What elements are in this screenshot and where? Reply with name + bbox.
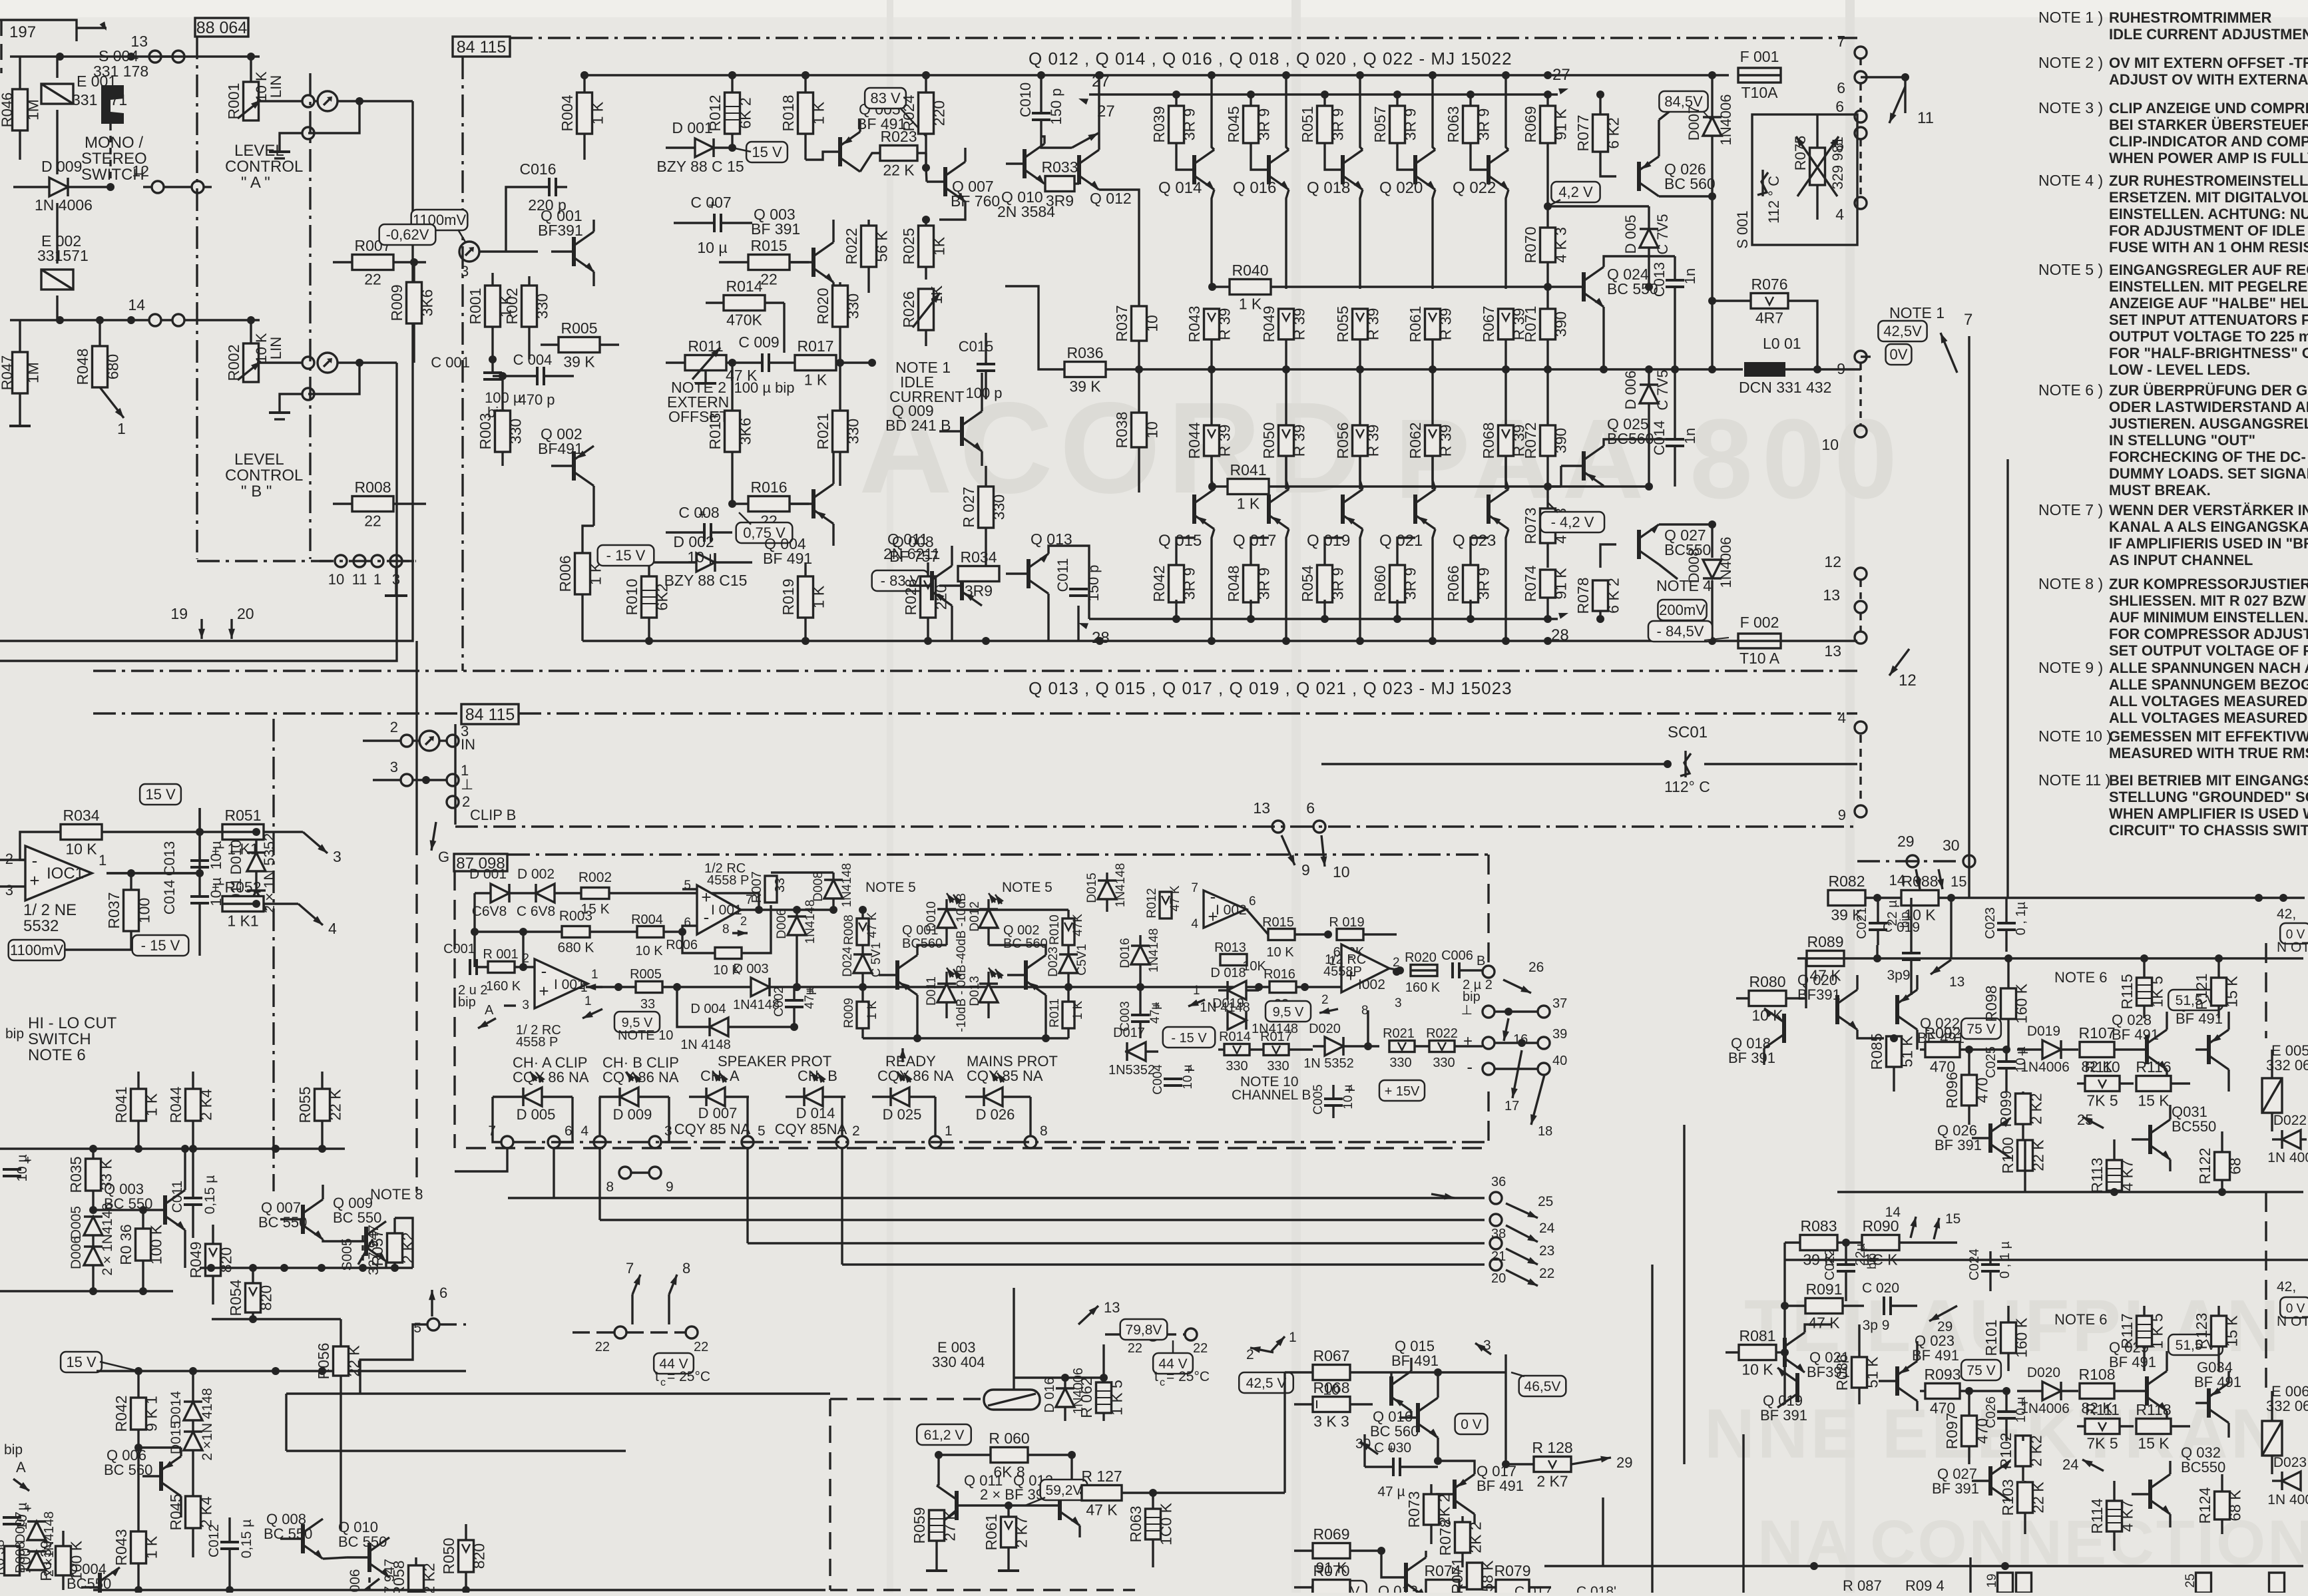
resistor R072 390: [1540, 425, 1556, 456]
svg-text:6 K2: 6 K2: [1605, 117, 1622, 148]
svg-text:Q 012 , Q 014 , Q 016 , Q 018: Q 012 , Q 014 , Q 016 , Q 018 , Q 020 , …: [1029, 49, 1512, 69]
resistor R091 47K: [1805, 1298, 1843, 1314]
svg-text:BC550: BC550: [2172, 1118, 2216, 1135]
svg-text:56 K: 56 K: [873, 230, 891, 262]
zener D006 1N4148: [788, 916, 806, 935]
diode D002 BZY88C15: [696, 553, 715, 572]
resistor R044b 2K4: [186, 1089, 201, 1121]
arrow 9: [1281, 835, 1295, 865]
svg-text:R075: R075: [1792, 136, 1809, 171]
svg-text:A: A: [485, 1003, 494, 1018]
svg-text:BF391: BF391: [1797, 986, 1841, 1003]
resistor R011 1K: [1062, 1002, 1074, 1028]
svg-text:BF491: BF491: [538, 440, 583, 457]
svg-text:D014: D014: [168, 1391, 184, 1425]
svg-text:C006: C006: [1441, 948, 1473, 963]
transistor Q004b BC550: [98, 1573, 102, 1596]
opto LED D013: [979, 984, 998, 1002]
resistor R128 2K7: [1534, 1457, 1571, 1472]
output cell Q 017 base resistor R048 3R9: [1244, 565, 1259, 602]
arrow 3: [1475, 1343, 1491, 1354]
resistor R010 47K: [1062, 918, 1074, 945]
svg-text:R048: R048: [1225, 566, 1242, 602]
svg-text:D005: D005: [69, 1206, 84, 1239]
bottom-right bus rail: [1857, 897, 2305, 898]
resistor R114 4K7: [2107, 1501, 2122, 1531]
bottom partial resistors: [1998, 1573, 2013, 1593]
feedback line R040: [1212, 286, 1561, 288]
svg-text:25: 25: [1538, 1194, 1553, 1209]
svg-text:6: 6: [684, 916, 691, 930]
bottom wire stubs: [1544, 1565, 2303, 1567]
power transistor Q 014 MJ15022: [1192, 155, 1196, 184]
vertical dash-dot border x411: [272, 719, 274, 1191]
resistor R055b 22K: [315, 1089, 330, 1121]
svg-text:4: 4: [1191, 917, 1198, 931]
callout 59,2V: [1040, 1480, 1088, 1500]
svg-text:D 016: D 016: [1042, 1377, 1057, 1412]
svg-text:CQY 86 NA: CQY 86 NA: [513, 1069, 589, 1086]
svg-text:R116: R116: [2136, 1058, 2171, 1076]
svg-text:9: 9: [1838, 807, 1846, 823]
resistor R098 160K: [2001, 988, 2016, 1019]
resistor R018 1K: [798, 93, 813, 134]
svg-text:3K6: 3K6: [737, 418, 754, 445]
svg-text:C 007: C 007: [690, 194, 731, 211]
resistor R009 1K: [857, 1002, 869, 1028]
terminal 6 LED row: [548, 1136, 560, 1148]
dashed edge right of power box: [1859, 59, 1861, 72]
svg-text:BF 391: BF 391: [751, 220, 800, 238]
svg-text:D016: D016: [1118, 938, 1132, 968]
rail top of Q003 section: [0, 1147, 345, 1149]
input terminal 3: [459, 242, 479, 262]
bias ladder node 4,2V: [1551, 182, 1600, 202]
svg-text:19: 19: [170, 605, 188, 622]
svg-text:D 005: D 005: [1622, 215, 1639, 254]
svg-text:R061: R061: [1407, 306, 1424, 343]
svg-text:1n: 1n: [1682, 428, 1698, 444]
svg-text:c: c: [660, 1377, 666, 1388]
capacitor C013 1n: [1666, 279, 1684, 282]
power transistor Q 017 MJ15023: [1267, 495, 1271, 524]
emitter resistor R044 R39: [1204, 425, 1220, 456]
arrow G down: [431, 822, 436, 851]
svg-text:CH· B: CH· B: [798, 1068, 837, 1084]
terminal 2 LED row: [836, 1136, 848, 1148]
power transistor Q 019 MJ15023: [1341, 495, 1345, 524]
svg-text:28: 28: [1092, 629, 1110, 647]
output cell Q 015 base resistor R042 3R9: [1169, 565, 1184, 602]
callout 0V: [1455, 1414, 1488, 1434]
svg-text:- 15 V: - 15 V: [606, 547, 646, 564]
svg-text:330: 330: [507, 419, 525, 444]
terminal 9 right edge mid: [1855, 805, 1867, 817]
svg-text:0 , 1µ: 0 , 1µ: [2014, 901, 2028, 935]
svg-text:SC01: SC01: [1668, 723, 1708, 741]
CLIP B terminal: [447, 796, 459, 808]
terminal 6: [1855, 71, 1867, 83]
svg-text:R009: R009: [388, 285, 405, 321]
svg-text:112 ° C: 112 ° C: [1765, 176, 1782, 224]
capacitor C022 22u bip: [1837, 1263, 1855, 1266]
svg-text:D019: D019: [2027, 1024, 2060, 1039]
capacitor C009 100u bip: [761, 353, 764, 372]
svg-text:91 K: 91 K: [1552, 108, 1570, 140]
resistor R011 47K trimmer: [685, 355, 726, 371]
svg-text:1 K: 1 K: [865, 1000, 879, 1020]
resistor R117 1K5: [2137, 1316, 2152, 1346]
resistor R107 82K: [2080, 1042, 2114, 1058]
diode D016b 1N4006: [1056, 1388, 1074, 1407]
svg-text:3R 9: 3R 9: [1256, 568, 1273, 600]
svg-text:C 030: C 030: [1374, 1440, 1411, 1456]
svg-text:CHANNEL B: CHANNEL B: [1232, 1088, 1311, 1103]
capacitor C004 10u: [1164, 1078, 1182, 1080]
resistor R074 91K: [1540, 570, 1556, 598]
transistor Q002 BC560 (protection): [1024, 960, 1028, 990]
svg-text:3R 9: 3R 9: [1402, 568, 1419, 600]
svg-text:C 7V5: C 7V5: [1654, 369, 1671, 410]
svg-text:7K 5: 7K 5: [2086, 1435, 2118, 1452]
wire collector bus Q012: [1095, 71, 1103, 79]
svg-text:-10dB - 0dB: -10dB - 0dB: [955, 964, 969, 1032]
diodes D014b D015b 2x1N4148: [184, 1402, 202, 1420]
box 84 115 (power amp) label: [453, 37, 510, 57]
svg-text:1N4006: 1N4006: [1718, 94, 1734, 145]
svg-text:R09 4: R09 4: [1905, 1577, 1945, 1593]
svg-text:D 007: D 007: [698, 1105, 738, 1121]
svg-text:R072: R072: [1522, 423, 1539, 459]
svg-text:BC 550: BC 550: [264, 1525, 312, 1542]
svg-text:CQY 85 NA: CQY 85 NA: [967, 1068, 1043, 1084]
svg-text:D020: D020: [2027, 1365, 2060, 1380]
box 84 115 left border: [461, 57, 463, 671]
svg-text:C011: C011: [1054, 558, 1071, 592]
svg-text:2 K4: 2 K4: [198, 1496, 215, 1528]
svg-text:C016: C016: [520, 160, 557, 178]
svg-text:22: 22: [595, 1340, 610, 1354]
svg-text:R058: R058: [390, 1561, 407, 1593]
base drive rail 28 (lower): [1089, 618, 1558, 620]
svg-text:42,: 42,: [2277, 1279, 2296, 1295]
IN connector jack: [401, 735, 413, 747]
svg-text:10: 10: [1821, 436, 1839, 453]
svg-text:30: 30: [1943, 837, 1960, 854]
callout 19,5V: [1312, 1581, 1367, 1596]
svg-text:R038: R038: [1113, 412, 1130, 449]
emitter resistor R061 R39: [1425, 309, 1441, 339]
callout 42,5V: [1239, 1372, 1293, 1393]
svg-text:R 128: R 128: [1532, 1439, 1572, 1456]
emitter resistor R068 R39: [1499, 425, 1514, 456]
resistor R002 330: [522, 286, 537, 327]
relay top wires: [1014, 1376, 1104, 1378]
svg-text:N OT: N OT: [2277, 940, 2308, 955]
svg-text:BF 391: BF 391: [1760, 1407, 1807, 1424]
svg-text:R093: R093: [1925, 1366, 1961, 1383]
svg-text:R004: R004: [559, 95, 576, 131]
callout -15V protection: [1163, 1027, 1215, 1048]
resistor R035 33K: [86, 1159, 101, 1191]
resistor R046 1M (left edge): [13, 89, 28, 130]
wires out of level box: [359, 100, 413, 102]
svg-text:DCN 331 432: DCN 331 432: [1739, 379, 1831, 396]
capacitor C006b left edge: [3, 1516, 21, 1519]
svg-text:2 × 1N4148: 2 × 1N4148: [100, 1203, 115, 1275]
svg-text:R 060: R 060: [989, 1430, 1029, 1447]
svg-text:330: 330: [534, 294, 551, 319]
svg-text:R041: R041: [113, 1087, 130, 1123]
svg-text:22: 22: [1539, 1266, 1554, 1281]
arrow 13 block1: [1931, 960, 1951, 974]
transistor Q027 BC550: [1637, 530, 1641, 559]
resistor R096 470: [1962, 1075, 1977, 1105]
block2 right border dash: [2265, 943, 2267, 1038]
svg-text:27: 27: [1552, 66, 1570, 84]
resistor R115 1K5 edge: [2137, 978, 2152, 1006]
svg-text:1: 1: [117, 420, 126, 437]
svg-text:R019: R019: [780, 579, 797, 616]
svg-text:3R9: 3R9: [965, 582, 993, 600]
wire note1 terminals: [1861, 355, 1871, 357]
svg-text:D 018: D 018: [1210, 966, 1246, 980]
svg-text:R086: R086: [1833, 1354, 1851, 1391]
terminal 5: [1855, 127, 1867, 139]
svg-text:D 001: D 001: [672, 119, 712, 136]
svg-text:75 V: 75 V: [1966, 1363, 1995, 1378]
resistor R016 22: [748, 497, 790, 512]
svg-text:MUST BREAK.: MUST BREAK.: [2109, 482, 2211, 499]
capacitor C008 10u: [703, 523, 706, 542]
resistor R013 3K6: [725, 411, 740, 452]
resistor R070 4K3: [1540, 228, 1556, 262]
svg-text:R107: R107: [2079, 1024, 2116, 1042]
bus lines to terminals 36 38 21 20: [508, 1197, 1485, 1199]
svg-text:R118: R118: [2136, 1401, 2171, 1418]
svg-text:22: 22: [760, 271, 778, 288]
svg-text:C004: C004: [1151, 1064, 1165, 1095]
resistor R122 68: [2215, 1152, 2230, 1180]
svg-text:3R 9: 3R 9: [1181, 108, 1198, 141]
svg-text:22: 22: [364, 271, 381, 288]
svg-text:NOTE 2 ): NOTE 2 ): [2038, 54, 2103, 71]
resistor R037 10: [1132, 306, 1147, 341]
svg-text:1N4148: 1N4148: [1147, 928, 1161, 973]
svg-text:R070: R070: [1522, 227, 1539, 264]
svg-text:28: 28: [1551, 626, 1569, 644]
svg-text:1 K: 1 K: [810, 585, 827, 608]
diode D020b 1N4006: [2042, 1382, 2061, 1400]
terminal 10: [1855, 425, 1867, 437]
LED D007 indicator: [706, 1088, 725, 1106]
svg-text:I 002: I 002: [1216, 902, 1247, 918]
svg-text:AS INPUT CHANNEL: AS INPUT CHANNEL: [2109, 552, 2253, 568]
wire SC01 to terminal 9: [1856, 763, 1858, 765]
svg-text:SHLIESSEN. MIT R 027 BZW R 028: SHLIESSEN. MIT R 027 BZW R 028 ENDST: [2109, 592, 2308, 609]
svg-text:NOTE 6 ): NOTE 6 ): [2038, 381, 2103, 399]
svg-text:42,: 42,: [2277, 906, 2296, 922]
terminal 5 compressor: [427, 1318, 439, 1330]
svg-text:- 84,5V: - 84,5V: [1657, 623, 1704, 640]
svg-text:3: 3: [522, 998, 529, 1012]
resistor R088 10K: [1901, 891, 1939, 906]
svg-text:ERSETZEN. MIT DIGITALVOLTMETER: ERSETZEN. MIT DIGITALVOLTMETER 200 mV: [2109, 189, 2308, 206]
resistor R116 15K: [2136, 1076, 2171, 1092]
svg-text:R123: R123: [2193, 1313, 2210, 1350]
svg-text:R122: R122: [2196, 1148, 2213, 1185]
svg-text:BF 491: BF 491: [1477, 1478, 1524, 1494]
svg-text:ZUR RUHESTROMEINSTELLUNG SICHE: ZUR RUHESTROMEINSTELLUNG SICHERUNG: [2109, 172, 2308, 189]
svg-text:3R9: 3R9: [1046, 192, 1074, 210]
svg-text:OUTPUT VOLTAGE TO 225 mV AT 1: OUTPUT VOLTAGE TO 225 mV AT 1 kHz.: [2109, 328, 2308, 345]
svg-text:D020: D020: [1309, 1022, 1341, 1036]
svg-text:1N4148: 1N4148: [840, 863, 854, 908]
svg-text:10: 10: [1144, 421, 1161, 439]
svg-text:1n: 1n: [1682, 268, 1698, 284]
ground at connector: [395, 567, 397, 596]
resistor R004 1K: [577, 93, 592, 134]
svg-text:15 V: 15 V: [66, 1354, 97, 1370]
resistor R041 1K: [1228, 479, 1269, 495]
capacitor C014 10u: [190, 895, 209, 898]
zener diode D005 C7V5: [1640, 229, 1658, 248]
svg-text:NOTE 7 ): NOTE 7 ): [2038, 501, 2103, 518]
block1 left vertical: [1805, 958, 1807, 1008]
resistor R016 33: [1269, 982, 1296, 993]
svg-text:R117: R117: [2118, 1313, 2136, 1348]
svg-text:4 K 3: 4 K 3: [1552, 227, 1570, 263]
resistor R008 22: [352, 497, 393, 512]
svg-text:IF AMPLIFIERIS USED IN "BRIDGE: IF AMPLIFIERIS USED IN "BRIDGED MODE",": [2109, 535, 2308, 552]
svg-text:NOTE 4: NOTE 4: [1656, 577, 1712, 594]
capacitor C025 10u: [1997, 1060, 2016, 1063]
switch S006 327947: [368, 1577, 370, 1590]
arrow 6 up: [431, 1290, 433, 1316]
svg-text:4: 4: [328, 920, 337, 937]
svg-text:S005: S005: [340, 1238, 355, 1271]
svg-text:2N 6211: 2N 6211: [883, 545, 940, 562]
svg-text:1N 4006: 1N 4006: [2267, 1492, 2308, 1507]
svg-text:R015: R015: [751, 237, 788, 254]
resistor R003 330: [495, 411, 511, 452]
svg-text:470: 470: [1974, 1078, 1991, 1103]
svg-text:680: 680: [105, 354, 122, 379]
resistor R067 10: [1313, 1365, 1350, 1380]
callout 79,8V: [1120, 1319, 1168, 1340]
callout 83V: [865, 88, 906, 108]
svg-text:ZUR ÜBERPRÜFUNG DER GLEICHSPAN: ZUR ÜBERPRÜFUNG DER GLEICHSPANNUNG: [2109, 382, 2308, 399]
svg-text:C 004: C 004: [513, 351, 553, 368]
resistor R004 10K: [637, 926, 664, 938]
transistor Q025 BC560: [1582, 451, 1586, 481]
svg-text:13: 13: [1253, 799, 1270, 817]
LED D026 indicator: [984, 1088, 1003, 1106]
svg-text:R096: R096: [1943, 1072, 1961, 1109]
svg-text:IN: IN: [461, 736, 475, 753]
resistor R013 10K: [1220, 954, 1247, 966]
diode D001 C6V8: [491, 884, 509, 902]
power transistor Q 021 MJ15023: [1413, 495, 1417, 524]
callout 44V tc: [654, 1353, 694, 1374]
svg-text:FOR "HALF-BRIGHTNESS" OF THE U: FOR "HALF-BRIGHTNESS" OF THE UPPER: [2109, 345, 2308, 361]
box 84 115 bottom border: [93, 670, 1857, 672]
svg-text:R042: R042: [1150, 566, 1168, 602]
svg-text:ANZEIGE AUF "HALBE" HELLIGKEIT: ANZEIGE AUF "HALBE" HELLIGKEIT DER LE: [2109, 295, 2308, 311]
svg-text:R057: R057: [369, 1230, 386, 1267]
svg-text:MONO /: MONO /: [85, 134, 143, 152]
svg-text:15 K: 15 K: [2138, 1092, 2170, 1109]
trimmer R075 329981: [1810, 148, 1825, 185]
arrow 1 below I001: [582, 1009, 602, 1018]
svg-text:R055: R055: [296, 1087, 314, 1123]
svg-text:D010: D010: [925, 901, 939, 931]
relay E001 331 571: [41, 84, 73, 104]
svg-text:D022: D022: [2273, 1113, 2307, 1128]
svg-text:8: 8: [682, 1260, 690, 1277]
svg-text:R085: R085: [1868, 1034, 1885, 1070]
diode D002 C6V8: [536, 884, 555, 902]
svg-text:R078: R078: [1574, 578, 1592, 614]
svg-text:R043: R043: [113, 1529, 130, 1566]
svg-text:3: 3: [1483, 1338, 1491, 1353]
svg-text:390: 390: [1552, 428, 1570, 453]
svg-text:100: 100: [136, 898, 153, 923]
svg-text:NOTE 10: NOTE 10: [618, 1028, 673, 1043]
diode D022b 1N4006: [2282, 1130, 2301, 1149]
svg-text:R114: R114: [2088, 1498, 2106, 1533]
resistor R019 680K: [1337, 929, 1363, 940]
svg-text:R049: R049: [187, 1242, 204, 1279]
resistor R071 390: [1540, 309, 1556, 339]
capacitor C023 0,1u: [1997, 922, 2016, 924]
svg-text:EINGANGSREGLER AUF RECHTSANSCH: EINGANGSREGLER AUF RECHTSANSCHLAG: [2109, 262, 2308, 278]
svg-text:68 K: 68 K: [2227, 1490, 2244, 1521]
svg-text:1N4006: 1N4006: [2020, 1401, 2070, 1416]
svg-text:NOTE 1 ): NOTE 1 ): [2038, 9, 2103, 26]
left rail y1940: [0, 1290, 173, 1292]
svg-text:LEVEL: LEVEL: [234, 451, 284, 469]
svg-text:bip: bip: [1463, 990, 1481, 1004]
svg-text:R 39: R 39: [1437, 308, 1455, 341]
resistor R008 47K: [857, 918, 869, 945]
arrow 29 block2: [1929, 1306, 1957, 1321]
svg-text:R0 36: R0 36: [117, 1224, 134, 1265]
svg-text:D007: D007: [13, 1511, 28, 1543]
svg-text:NOTE 10 ): NOTE 10 ): [2038, 727, 2112, 745]
diode D019b 1N4006: [2042, 1040, 2061, 1059]
emitter resistor R056 R39: [1353, 425, 1368, 456]
svg-text:D 002: D 002: [517, 867, 555, 882]
svg-text:BEI STARKER ÜBERSTEUERUNG AUF.: BEI STARKER ÜBERSTEUERUNG AUF.: [2109, 116, 2308, 133]
resistor R079 22K: [1496, 1580, 1529, 1595]
capacitor C019 3p9: [1902, 952, 1921, 954]
svg-text:R076: R076: [1751, 276, 1788, 293]
svg-text:R071: R071: [1449, 1558, 1466, 1593]
svg-text:C021: C021: [1855, 907, 1869, 939]
supply 15V lower-left: [61, 1352, 102, 1372]
output cell Q 016 base resistor R045 3R9: [1244, 106, 1259, 143]
svg-text:R013: R013: [1214, 940, 1246, 955]
svg-text:1 K1: 1 K1: [227, 841, 258, 858]
svg-text:79,8V: 79,8V: [1126, 1322, 1162, 1338]
svg-text:160 K: 160 K: [1405, 980, 1441, 995]
resistor R080 10K: [1749, 991, 1786, 1006]
transistor Q009b BC550: [364, 1227, 368, 1256]
svg-text:CLIP ANZEIGE UND COMPRESSION S: CLIP ANZEIGE UND COMPRESSION STEUERUNG: [2109, 100, 2308, 116]
svg-text:13: 13: [1823, 586, 1840, 604]
svg-text:8: 8: [606, 1179, 614, 1195]
